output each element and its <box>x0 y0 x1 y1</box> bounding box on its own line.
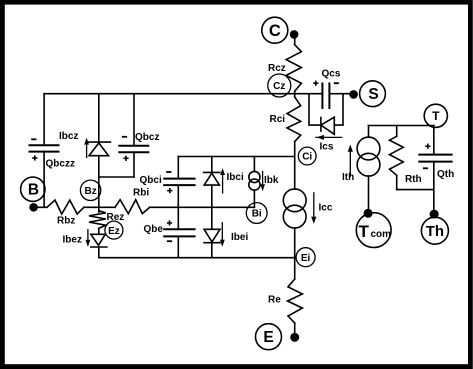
capacitor Qbe <box>164 229 194 236</box>
wire base from B dot to Rbz <box>34 206 47 208</box>
current source Ibk <box>249 171 260 182</box>
svg-text:T: T <box>432 109 440 123</box>
svg-text:Th: Th <box>426 223 444 240</box>
svg-text:Rbi: Rbi <box>133 188 149 199</box>
svg-text:Ci: Ci <box>302 152 312 163</box>
resistor Rci <box>287 97 301 142</box>
junction dot at Tcom <box>364 209 373 218</box>
wire Rth bottom stub <box>396 175 398 189</box>
svg-text:Rcz: Rcz <box>268 63 286 74</box>
wire Ibk to Bi junction <box>253 190 255 207</box>
wire Qbci column upper <box>177 157 179 179</box>
svg-text:E: E <box>263 329 273 346</box>
junction dot at C <box>290 30 299 39</box>
capacitor Qbczz <box>30 145 59 151</box>
capacitor Qth <box>419 155 451 162</box>
terminal S <box>360 81 386 107</box>
wire diode Ibcz column upper <box>98 94 100 142</box>
svg-text:com: com <box>371 229 392 240</box>
wire Bz column <box>98 156 100 212</box>
svg-text:T: T <box>359 222 370 241</box>
terminal T <box>424 104 447 127</box>
terminal E <box>256 324 282 350</box>
svg-text:Ez: Ez <box>108 226 120 237</box>
wire Ibei to bottom rail <box>211 243 213 258</box>
wire Qbci to Qbe column <box>177 185 179 229</box>
wire Re to E dot <box>294 323 296 337</box>
svg-text:Ics: Ics <box>320 142 334 153</box>
wire Qbcz-bottom to Bz column <box>99 176 134 178</box>
wire Rez to Ibez diode <box>98 229 100 234</box>
arrow Ibcz <box>84 138 89 158</box>
arrow Ibci <box>220 168 225 194</box>
wire Rbz to Rbi <box>84 206 115 208</box>
current source Ith <box>357 137 380 160</box>
polarity signs Qbczz <box>31 138 36 140</box>
polarity signs Qcs <box>313 81 318 86</box>
terminal Th <box>421 217 448 244</box>
terminal C <box>262 17 288 43</box>
svg-text:Rbz: Rbz <box>57 216 75 227</box>
resistor Re <box>288 279 303 323</box>
svg-text:Icc: Icc <box>319 203 333 214</box>
node Ci <box>298 147 316 165</box>
node Ez <box>105 221 123 239</box>
polarity signs Qbci <box>166 171 171 173</box>
junction dot at Th <box>430 210 439 219</box>
arrow Icc <box>311 192 316 224</box>
junction dot at S <box>349 90 358 99</box>
wire C dot to Rcz <box>294 34 296 44</box>
diode of Ibcz <box>88 142 110 156</box>
svg-text:B: B <box>28 182 39 199</box>
svg-text:Qth: Qth <box>437 169 454 180</box>
terminal Tcom <box>356 213 391 248</box>
wire thermal top rail <box>369 125 434 127</box>
wire T to Qth column <box>433 126 435 155</box>
wire Ibci column upper <box>211 157 213 173</box>
resistor Rbz <box>47 200 84 214</box>
svg-text:Qbczz: Qbczz <box>46 159 75 170</box>
svg-text:Ibei: Ibei <box>231 232 248 243</box>
wire Ibk column upper <box>253 157 255 172</box>
wire Rth bottom to Th column <box>397 189 434 191</box>
svg-text:C: C <box>269 22 281 40</box>
svg-text:Rez: Rez <box>107 212 125 223</box>
resistor Rcz <box>286 45 301 91</box>
resistor Rth <box>390 136 404 175</box>
svg-text:Cz: Cz <box>273 81 285 92</box>
svg-text:Rci: Rci <box>270 114 286 125</box>
node Ei <box>296 248 315 267</box>
svg-text:Ibcz: Ibcz <box>59 131 78 142</box>
arrow Ibei <box>220 222 225 247</box>
polarity signs Qth <box>425 144 430 149</box>
diode of Ibei <box>204 229 220 242</box>
svg-text:S: S <box>368 86 378 103</box>
wire bottom emitter rail <box>99 257 295 259</box>
polarity signs Qbcz <box>122 136 127 138</box>
svg-text:Ibk: Ibk <box>264 175 279 186</box>
capacitor Qbci <box>164 179 194 186</box>
wire Ith to Tcom dot <box>368 176 370 213</box>
svg-text:Qbcz: Qbcz <box>135 132 159 143</box>
junction dot at B <box>29 203 38 212</box>
svg-text:Qbci: Qbci <box>140 175 162 186</box>
svg-text:Ith: Ith <box>342 172 354 183</box>
arrow Ith <box>348 145 353 177</box>
wire Rcz to Rci through Cz <box>294 91 296 97</box>
wire Ith column upper <box>368 126 370 138</box>
wire Qbcz column lower <box>133 152 135 177</box>
wire Icc to Ei to Re <box>294 228 296 279</box>
junction dot at E <box>290 333 299 342</box>
wire Qth to Th dot <box>433 162 435 215</box>
arrow Ics <box>315 135 342 140</box>
svg-text:Qcs: Qcs <box>322 69 341 80</box>
wire Rci to Ci to Icc <box>294 142 296 189</box>
svg-text:Ibci: Ibci <box>227 172 244 183</box>
wire Ics box right <box>334 94 343 125</box>
svg-text:Bz: Bz <box>84 186 96 197</box>
polarity signs Qbe <box>167 220 172 225</box>
node Bz <box>80 180 100 200</box>
current source Icc <box>283 189 306 212</box>
diode Ics <box>321 117 334 134</box>
svg-text:Ei: Ei <box>301 253 311 264</box>
wire Qbczz column lower <box>43 152 45 208</box>
wire Qcs to S dot <box>329 93 353 95</box>
wire Qbe to bottom rail <box>177 236 179 257</box>
resistor Rez <box>89 211 106 229</box>
wire Qbcz column upper <box>133 94 135 146</box>
wire top rail B-C-Qcs <box>45 93 323 95</box>
wire Ics box left <box>309 94 321 125</box>
svg-text:Ibez: Ibez <box>63 235 82 246</box>
node Bi <box>246 203 267 224</box>
wire Ibez diode to bottom rail <box>98 247 100 258</box>
svg-text:Rth: Rth <box>405 174 422 185</box>
wire mid rail to Ci <box>178 156 295 158</box>
resistor Rbi <box>115 200 150 214</box>
arrow Ibez <box>86 229 91 247</box>
capacitor Qcs <box>322 84 329 109</box>
capacitor Qbcz <box>119 146 148 153</box>
svg-text:Qbe: Qbe <box>144 224 164 235</box>
wire Rbi to Bi node <box>150 206 255 208</box>
diode of Ibez <box>91 234 107 247</box>
svg-text:Re: Re <box>268 294 281 305</box>
node Cz <box>268 74 291 97</box>
terminal B <box>21 177 45 201</box>
diode of Ibci <box>204 172 220 185</box>
wire Ibci to Ibei column <box>211 185 213 229</box>
wire Rth top stub <box>396 126 398 137</box>
svg-text:Bi: Bi <box>252 209 262 220</box>
wire Qbczz column upper <box>43 94 45 146</box>
arrow Ibk <box>260 171 265 192</box>
